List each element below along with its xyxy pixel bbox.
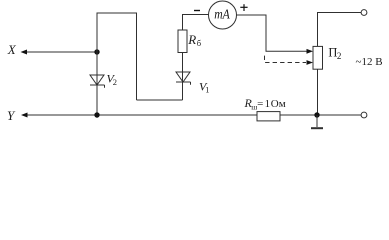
wire ammeter to regulator (solid drive line) [237, 15, 308, 51]
wire X output line with arrow [21, 50, 98, 55]
wire loop top horizontal [97, 12, 138, 14]
label P2 [328, 45, 341, 61]
wire Y rail with arrow [21, 113, 361, 118]
resistor Rb body [178, 30, 187, 53]
svg-text:2: 2 [337, 51, 342, 61]
label Rb [187, 32, 201, 48]
svg-text:R: R [187, 32, 196, 47]
svg-text:Y: Y [7, 108, 16, 123]
resistor Rsh body [257, 112, 280, 121]
junction Y rail / P2 branch [314, 112, 319, 117]
svg-text:X: X [7, 42, 17, 57]
junction X-line / V2 branch [94, 49, 99, 54]
label V1 [199, 80, 210, 95]
arrowhead solid into P2 [307, 49, 314, 54]
wire P2 top to output terminal [318, 13, 362, 47]
terminal lower output [361, 112, 367, 118]
svg-text:Ом: Ом [271, 98, 286, 110]
svg-text:2: 2 [113, 77, 117, 87]
polarity minus [194, 10, 200, 12]
wire Rb top to ammeter [183, 15, 209, 31]
svg-text:mA: mA [214, 8, 230, 23]
polarity plus [240, 4, 247, 11]
wire dashed control line [265, 53, 307, 63]
svg-text:~12 В: ~12 В [356, 56, 383, 68]
label V2 [107, 72, 118, 88]
wire P2 bottom to Y rail [317, 69, 319, 115]
label Rsh = 1 Om [244, 96, 286, 111]
terminal upper output [361, 10, 367, 16]
wire left branch vertical (through V2) [96, 13, 98, 115]
arrowhead dashed into P2 [307, 60, 314, 65]
wire V1 branch vertical [182, 53, 184, 101]
svg-text:1: 1 [205, 85, 209, 95]
ground [311, 115, 323, 128]
wire loop right vertical [136, 13, 138, 101]
diode V2 (zener) [90, 75, 105, 88]
wire loop bottom horizontal [137, 99, 183, 101]
svg-text:1: 1 [265, 98, 271, 110]
diode V1 (zener) [176, 72, 191, 85]
junction Y rail / V2 branch [94, 112, 99, 117]
regulator P2 body [313, 46, 323, 69]
svg-text:=: = [257, 98, 263, 110]
svg-text:б: б [197, 38, 201, 48]
ammeter mA [209, 1, 237, 29]
